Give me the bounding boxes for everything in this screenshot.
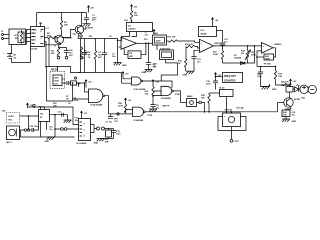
wire crystal right with terminal xyxy=(197,102,199,104)
svg-text:100n: 100n xyxy=(206,84,211,86)
wire mic drop xyxy=(28,116,30,130)
wire sensor box top xyxy=(57,67,59,72)
svg-text:IC4B 4066: IC4B 4066 xyxy=(160,47,171,50)
svg-text:2 TR: 2 TR xyxy=(31,33,36,35)
resistor R6 box xyxy=(71,81,77,85)
wire IC5 output drop xyxy=(54,115,56,137)
ground bottom bus xyxy=(47,137,55,140)
svg-text:BC557B: BC557B xyxy=(85,28,93,30)
nand gate IC3B xyxy=(161,86,172,95)
svg-text:R13 10K: R13 10K xyxy=(168,36,176,38)
wire crystal left xyxy=(181,102,187,104)
svg-text:100K: 100K xyxy=(118,106,123,108)
svg-text:10K: 10K xyxy=(64,25,68,27)
ground comparator inputs xyxy=(186,71,194,74)
capacitor C16 xyxy=(260,67,262,73)
wire bottom right bus xyxy=(257,66,276,68)
wire IC3B output xyxy=(174,91,181,103)
resistor R19 xyxy=(275,67,277,71)
wire feedback left xyxy=(124,49,128,55)
wire R6 to gate A xyxy=(73,83,85,85)
power +9V IC3A xyxy=(85,80,87,85)
svg-text:+9V: +9V xyxy=(90,8,94,10)
wire mid-block bottom xyxy=(79,72,122,74)
power +9V IC3C xyxy=(122,72,124,77)
capacitor C2 xyxy=(84,39,86,53)
wire rail drop to IC1 xyxy=(37,13,43,27)
svg-text:1 G: 1 G xyxy=(31,43,35,45)
sensor inner box xyxy=(53,75,62,86)
wire IC1 drop left xyxy=(45,42,47,67)
svg-text:IC3/A 4093B: IC3/A 4093B xyxy=(91,104,103,107)
capacitor C10 xyxy=(66,48,68,51)
svg-text:10K: 10K xyxy=(283,115,287,117)
ground output network xyxy=(101,137,114,139)
svg-text:10K: 10K xyxy=(145,94,149,96)
svg-text:4066B: 4066B xyxy=(201,33,207,36)
nand gate IC3D xyxy=(133,107,144,116)
wire battery top xyxy=(10,45,12,54)
nand gate IC3C xyxy=(132,77,142,85)
resistor R16 xyxy=(185,59,187,68)
capacitor C20 xyxy=(32,122,39,133)
wire meter supply xyxy=(215,78,217,82)
wire IC7 minus input xyxy=(257,51,262,67)
input jack box xyxy=(9,29,26,45)
wire speaker left loop xyxy=(218,117,227,131)
wire IC4 box to C12 xyxy=(217,31,223,44)
svg-text:IC3B: IC3B xyxy=(175,94,180,96)
buzzer BZ1 xyxy=(300,85,308,93)
wire IC5 bottom pins xyxy=(41,122,47,138)
svg-text:100K: 100K xyxy=(213,54,218,56)
wire R19 bottom row xyxy=(276,80,290,87)
power +9V C1 xyxy=(87,6,89,11)
wire IC7 output xyxy=(273,48,276,57)
svg-text:GND: GND xyxy=(94,143,99,145)
wire IC6 right pins xyxy=(91,125,97,133)
comparator IC8 xyxy=(200,39,214,52)
svg-text:10K: 10K xyxy=(53,106,57,108)
svg-text:LM4250: LM4250 xyxy=(274,43,282,46)
wire Q2 emitter down xyxy=(77,34,80,39)
svg-text:1%: 1% xyxy=(88,57,91,59)
capacitor C13 xyxy=(191,57,196,59)
resistor R4 xyxy=(58,46,60,48)
resistor R24 emitter box xyxy=(282,110,290,117)
analog switch IC4A body xyxy=(153,35,167,45)
node TP1 xyxy=(80,35,82,37)
svg-text:TP-M: TP-M xyxy=(39,107,44,109)
IC1 left pin stubs xyxy=(27,30,31,45)
power +9V IC5 xyxy=(26,103,28,108)
svg-text:GND: GND xyxy=(272,89,277,91)
svg-text:100K: 100K xyxy=(265,58,270,60)
wire display feed xyxy=(216,76,223,78)
wire Q3 base from rail xyxy=(278,102,284,104)
wire IC2 minus input xyxy=(118,39,122,63)
svg-text:100n: 100n xyxy=(74,100,79,102)
svg-text:10K: 10K xyxy=(201,98,205,100)
svg-text:5 CV: 5 CV xyxy=(31,40,36,42)
power +9V right xyxy=(289,79,291,84)
svg-text:FREQ CNT: FREQ CNT xyxy=(224,76,236,78)
wire main bottom rail xyxy=(145,111,277,113)
svg-text:C7 10u: C7 10u xyxy=(106,122,113,124)
wire IC5 right out xyxy=(50,107,79,125)
ground right mid xyxy=(261,85,270,87)
capacitor C21 xyxy=(46,125,48,127)
power +9V meter xyxy=(214,73,216,78)
speaker box xyxy=(223,113,241,127)
svg-text:GND: GND xyxy=(122,65,127,67)
LED D4 xyxy=(295,84,300,92)
wire IC3D input upper xyxy=(126,108,133,110)
resistor R21 box xyxy=(286,87,293,93)
ground C1 xyxy=(83,24,91,27)
sensor dashed box xyxy=(50,71,65,88)
wire R3 to Q1 collector xyxy=(60,30,63,36)
wire mic row1 xyxy=(20,115,39,117)
resistor R20 xyxy=(283,83,292,85)
wire Q1 collector node to Q2 base xyxy=(62,30,75,38)
capacitor C9 xyxy=(148,43,150,45)
capacitor C12 xyxy=(220,43,225,45)
svg-text:M-DC: M-DC xyxy=(220,87,226,89)
wire mid-block top xyxy=(78,38,118,40)
svg-text:4MHZ: 4MHZ xyxy=(187,95,193,98)
wire top rail xyxy=(37,12,87,14)
svg-text:ELEC: ELEC xyxy=(9,116,15,118)
wire LED to buzzer xyxy=(299,88,300,90)
wire meter bottom pin xyxy=(226,97,228,112)
svg-text:27m: 27m xyxy=(54,84,58,86)
wire bottom gnd bus xyxy=(21,136,75,138)
trimmer VR1 xyxy=(247,46,249,51)
wire comparator minus input xyxy=(194,50,200,56)
svg-text:IC3/4093B: IC3/4093B xyxy=(161,97,171,100)
amplifier IC6 box xyxy=(79,119,91,141)
svg-text:IC6 LM386: IC6 LM386 xyxy=(77,143,88,145)
feedback resistor R9 box xyxy=(128,51,141,59)
capacitor C14 xyxy=(213,81,218,83)
svg-text:MIC: MIC xyxy=(9,120,13,122)
wire IC3A input lower xyxy=(73,85,89,100)
svg-text:SOR: SOR xyxy=(54,81,59,83)
wire mic row2 xyxy=(20,129,25,131)
svg-text:100n: 100n xyxy=(257,76,262,78)
node TP6 xyxy=(33,104,35,106)
resistor R25 box xyxy=(108,129,110,131)
wire IC2 plus input xyxy=(119,46,122,48)
wire Q3 emitter xyxy=(286,107,292,110)
ground C9 xyxy=(145,70,153,73)
svg-text:R15 10K: R15 10K xyxy=(185,44,193,46)
wire speaker bottom to terminal xyxy=(227,127,237,140)
wire feedback right xyxy=(141,43,146,54)
resistor R15 xyxy=(186,45,195,47)
jumper pads xyxy=(24,129,26,131)
wire IC2 box to op-amp xyxy=(122,32,137,42)
resistor R17 xyxy=(222,46,224,51)
svg-text:1N4148: 1N4148 xyxy=(234,57,242,60)
resistor R3 xyxy=(60,21,62,30)
wire IC4A to IC4B xyxy=(156,45,158,50)
microphone dashed box xyxy=(7,113,20,124)
svg-text:10R: 10R xyxy=(105,142,109,144)
capacitor C17 xyxy=(62,113,64,117)
svg-text:100n: 100n xyxy=(34,126,39,128)
svg-text:BC547: BC547 xyxy=(294,98,301,101)
svg-text:1M: 1M xyxy=(78,84,81,86)
IC1 box xyxy=(31,27,45,47)
wire speaker rail tap xyxy=(231,112,233,113)
svg-text:BAT.TP: BAT.TP xyxy=(163,105,171,108)
resistor R13 xyxy=(169,40,178,42)
diode D2 xyxy=(241,62,245,65)
node TP5 xyxy=(117,113,119,115)
svg-text:MIC-1: MIC-1 xyxy=(7,142,13,144)
resistor R5 xyxy=(95,39,97,51)
crystal X1 box xyxy=(187,99,197,107)
wire IC2 output xyxy=(137,42,153,44)
svg-text:10K: 10K xyxy=(134,15,138,17)
analog switch IC4B box xyxy=(160,50,174,60)
svg-text:1M: 1M xyxy=(241,53,244,55)
wire IC3A output xyxy=(105,96,109,114)
wire IC3C input lower xyxy=(122,73,132,84)
svg-text:6 TH: 6 TH xyxy=(31,36,36,38)
wire R2 to Q1 base xyxy=(54,38,56,40)
wire piezo bottom loop xyxy=(47,67,73,102)
svg-text:COUNTER: COUNTER xyxy=(224,80,236,82)
svg-text:1M: 1M xyxy=(15,38,18,40)
analog switch IC4A box xyxy=(153,29,155,34)
resistor R12 pullup xyxy=(152,80,154,85)
wire R15 to plus input xyxy=(186,47,200,59)
capacitor C7 xyxy=(110,114,112,117)
wire R13 to comparator xyxy=(178,41,200,42)
svg-text:GND: GND xyxy=(183,74,188,76)
wire feedback to minus xyxy=(257,56,264,58)
capacitor C19 xyxy=(113,129,115,131)
terminal J2 xyxy=(230,139,233,142)
resistor R8 xyxy=(131,10,133,11)
wire IC1 output to R2 xyxy=(45,37,48,39)
wire IC4B bottom feedback xyxy=(161,60,177,82)
display box xyxy=(223,73,243,83)
wire bottom loop comparator xyxy=(223,46,255,63)
svg-text:SEN: SEN xyxy=(54,78,59,80)
power +9V IC4 xyxy=(211,18,213,23)
IC4 power box xyxy=(199,27,217,37)
microphone body box xyxy=(7,126,20,140)
regulator IC5 box xyxy=(39,110,50,122)
IC2 package box xyxy=(127,23,153,32)
wire mid-block left xyxy=(80,39,82,73)
transistor Q3 xyxy=(284,98,293,107)
svg-text:IC3D: IC3D xyxy=(148,115,153,117)
wire rail to base riser xyxy=(277,103,279,112)
node bias xyxy=(74,77,76,79)
wire IC3A input upper xyxy=(85,83,89,92)
power +9V IC6 xyxy=(80,111,82,116)
svg-text:100n: 100n xyxy=(116,134,121,136)
svg-text:IC3/4093B: IC3/4093B xyxy=(134,119,144,122)
svg-text:IC4A: IC4A xyxy=(153,32,158,35)
wire IC4A out xyxy=(167,40,169,42)
op-amp IC7 xyxy=(262,43,274,54)
wire IC3C output to IC3B xyxy=(143,81,172,88)
wire IC5 top pin xyxy=(40,107,42,110)
transistor Q1 xyxy=(55,35,64,44)
wire comparator output xyxy=(214,45,259,47)
wire battery bottom loop xyxy=(10,47,31,63)
svg-text:TP 2V8: TP 2V8 xyxy=(264,64,272,66)
wire Q1 emitter xyxy=(45,44,67,48)
wire sensor out xyxy=(62,82,64,84)
capacitor C1 xyxy=(84,18,89,20)
transistor Q2 xyxy=(75,25,84,34)
svg-text:GND: GND xyxy=(45,141,50,143)
resistor R18 xyxy=(208,93,210,95)
resistor R8 xyxy=(81,46,83,49)
wire speaker right loop xyxy=(237,117,247,131)
wire rail drop to R3 xyxy=(61,13,63,21)
connector J1 xyxy=(3,35,9,39)
capacitor C8 xyxy=(152,95,154,97)
wire R21 to Q3 collector xyxy=(289,92,291,98)
svg-text:GND: GND xyxy=(142,72,147,74)
svg-text:CA3140: CA3140 xyxy=(128,27,136,30)
svg-text:10K: 10K xyxy=(278,76,282,78)
capacitor C4 xyxy=(104,39,106,53)
wire sensor top xyxy=(47,67,81,73)
svg-text:100K: 100K xyxy=(251,55,256,57)
ground mid-block xyxy=(114,63,122,66)
resistor R2 xyxy=(48,36,57,38)
ground C17 xyxy=(67,115,69,120)
svg-text:R20 10K: R20 10K xyxy=(281,82,289,84)
wire R21 to LED xyxy=(293,88,295,90)
svg-text:+9V: +9V xyxy=(215,20,219,22)
jumper pads left xyxy=(55,128,79,130)
capacitor C5 series xyxy=(64,81,71,85)
wire R2 drop xyxy=(48,39,50,67)
ground emitter xyxy=(285,117,287,120)
resistor R14 xyxy=(124,98,126,103)
svg-text:D5 LED: D5 LED xyxy=(237,108,245,110)
power +9V R8 xyxy=(130,5,132,10)
nand gate IC3A xyxy=(89,89,103,103)
svg-text:7 DIS: 7 DIS xyxy=(31,30,37,32)
svg-text:GND: GND xyxy=(292,121,297,123)
wire IC7 plus input xyxy=(259,45,262,47)
battery B1 xyxy=(7,54,13,59)
wire Q2 collector to rail xyxy=(80,13,82,27)
wire meter left xyxy=(209,92,220,94)
jumper pads out xyxy=(97,127,100,130)
wire IC3D input lower xyxy=(109,113,133,115)
op-amp IC2 xyxy=(121,37,137,49)
node IC5 output junction xyxy=(54,114,56,116)
feedback resistor R22 box xyxy=(264,54,274,60)
